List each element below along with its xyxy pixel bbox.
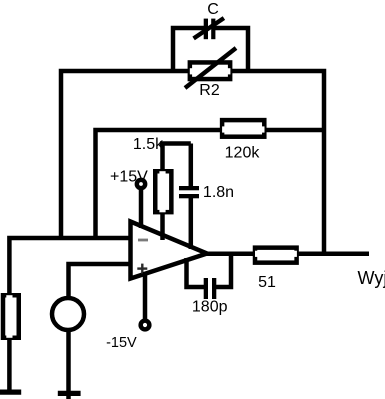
resistor 51 — [255, 248, 297, 263]
op-amp U1 — [131, 222, 208, 279]
resistor R2 variable arrow — [185, 48, 236, 88]
wire 1.5k bottom lead — [160, 214, 165, 240]
capacitor C variable arrow — [194, 18, 224, 38]
svg-text:51: 51 — [258, 274, 276, 291]
op-amp minus sign — [138, 239, 148, 242]
capacitor 1.8n — [179, 186, 199, 198]
wire R input bottom lead — [7, 340, 12, 390]
wire inverting input — [9, 238, 133, 293]
wire 1.5k / 1.8n top — [160, 141, 191, 146]
wire 180p right branch — [215, 254, 231, 287]
capacitor C plates — [204, 19, 216, 40]
resistor R2 — [190, 62, 231, 79]
svg-text:C: C — [207, 1, 219, 18]
resistor R input — [3, 295, 19, 338]
ground source — [58, 391, 81, 396]
wire top feedback loop — [61, 71, 324, 254]
svg-text:1.8n: 1.8n — [203, 184, 234, 201]
source V1 — [52, 298, 84, 330]
wire 1.8n bottom lead — [189, 198, 194, 250]
svg-text:R2: R2 — [199, 82, 220, 99]
resistor 120k — [222, 120, 264, 137]
op-amp plus sign — [137, 264, 147, 274]
svg-text:120k: 120k — [225, 145, 261, 162]
svg-text:-15V: -15V — [106, 335, 137, 351]
svg-text:180p: 180p — [192, 299, 228, 316]
wire C loop — [173, 28, 248, 73]
terminal +15V — [135, 178, 148, 191]
terminal -15V — [138, 318, 151, 331]
wire non-inverting input — [69, 264, 134, 299]
ground left — [0, 390, 21, 395]
wire +15V supply — [139, 189, 144, 228]
wire output — [205, 252, 369, 257]
resistor 1.5k — [155, 171, 171, 212]
svg-text:+15V: +15V — [110, 169, 148, 186]
capacitor 180p — [204, 278, 217, 299]
svg-text:1.5k: 1.5k — [133, 136, 164, 153]
svg-text:Wyj: Wyj — [358, 268, 385, 288]
wire 120k feedback — [96, 130, 327, 238]
wire 1.5k top lead — [160, 144, 165, 172]
wire source bottom lead — [66, 330, 71, 399]
wire -15V supply — [143, 272, 148, 320]
wire 180p left branch — [187, 258, 206, 287]
wire 1.8n top lead — [189, 144, 194, 188]
